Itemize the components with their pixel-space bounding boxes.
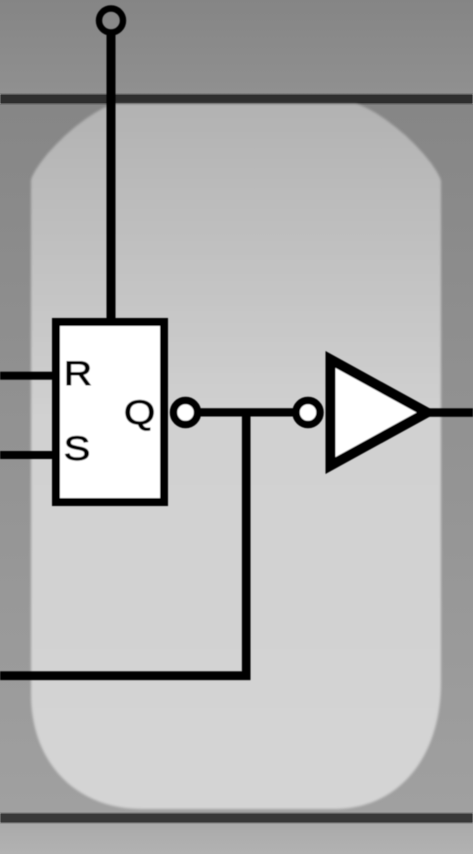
chip body (31, 104, 441, 809)
chip boundary line bottom (0, 813, 473, 823)
svg-text:Q: Q (124, 393, 155, 432)
SR latch U1 body (56, 322, 164, 502)
buffer U2 (331, 360, 428, 466)
node buffer input (296, 401, 320, 425)
wire feedback vertical (242, 412, 251, 675)
wire feedback bottom (0, 671, 251, 680)
pin P1 terminal (99, 9, 123, 33)
wire S input (0, 451, 56, 459)
svg-text:R: R (64, 354, 92, 392)
chip boundary line top (0, 94, 473, 104)
wire from pin P1 to latch (107, 30, 116, 322)
wire Q output to buffer (185, 408, 308, 416)
wire R input (0, 372, 56, 380)
svg-text:S: S (64, 429, 91, 468)
wire buffer output (427, 408, 473, 417)
node Q output (174, 401, 198, 425)
